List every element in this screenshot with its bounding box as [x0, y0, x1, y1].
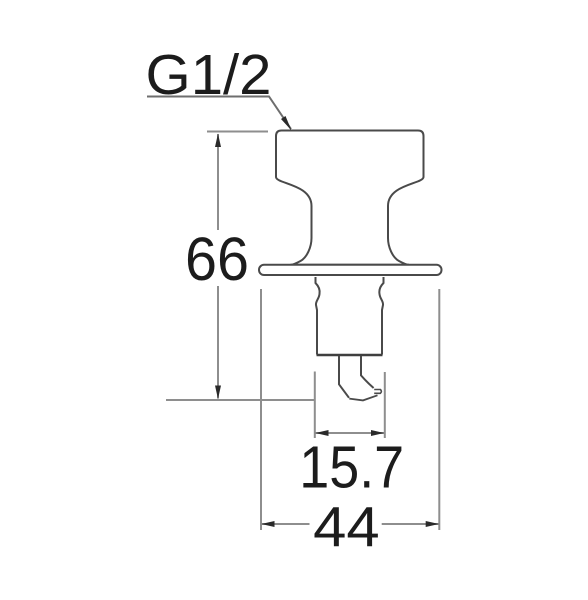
node: bell body outline [276, 131, 424, 265]
wire: spout outlet rim [374, 390, 381, 394]
wire: spout left outline [339, 356, 349, 398]
wire: G1/2 leader underline [147, 97, 291, 130]
wire: 44 dimension line left segment [262, 523, 310, 525]
wire: spout right outline [361, 356, 374, 388]
node: bottom flange [259, 265, 442, 275]
svg-text:G1/2: G1/2 [146, 43, 272, 107]
wire: G1/2 leader arrowhead [281, 116, 292, 131]
wire: 15.7 left extension line [314, 372, 316, 439]
wire: 44 arrow right [426, 521, 439, 527]
wire: 15.7 arrow right [371, 430, 384, 436]
wire: shaft left edge with groove [316, 277, 320, 355]
wire: 15.7 arrow left [315, 430, 328, 436]
wire: 66 arrow up [215, 134, 221, 148]
wire: 66 top extension tick [207, 131, 268, 133]
wire: spout bottom edge [349, 395, 377, 400]
wire: 15.7 right extension line [384, 372, 386, 438]
wire: 66 arrow down [215, 386, 221, 400]
svg-text:44: 44 [313, 495, 380, 559]
wire: 15.7 dimension line [316, 432, 385, 434]
svg-text:66: 66 [185, 225, 249, 293]
wire: 66 dimension line lower segment [217, 286, 219, 399]
svg-text:15.7: 15.7 [299, 434, 404, 500]
wire: 66 dimension line upper segment [217, 134, 219, 230]
wire: 44 left extension line [260, 289, 262, 530]
wire: 44 right extension line [438, 289, 440, 530]
wire: 44 arrow left [261, 521, 274, 527]
wire: 66 bottom extension tick [166, 399, 315, 401]
wire: 44 dimension line right segment [382, 523, 439, 525]
wire: shaft bottom edge [317, 354, 383, 357]
wire: shaft right edge with groove [379, 277, 383, 355]
